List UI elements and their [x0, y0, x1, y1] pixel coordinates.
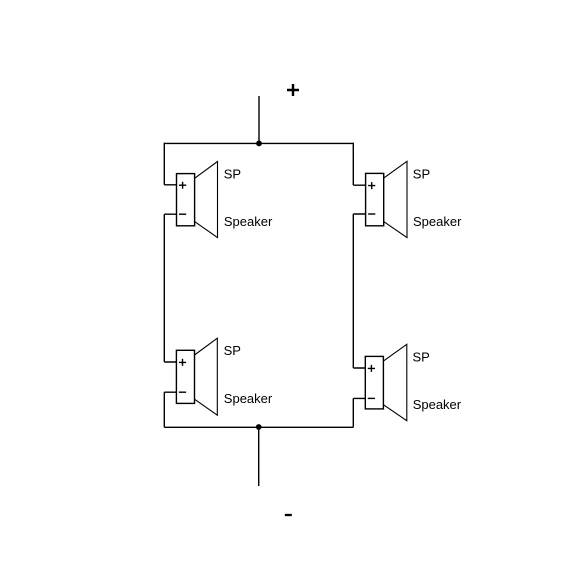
svg-text:Speaker: Speaker [413, 397, 462, 412]
svg-text:Speaker: Speaker [224, 214, 273, 229]
svg-text:SP: SP [224, 167, 241, 182]
svg-text:SP: SP [413, 166, 430, 181]
svg-text:Speaker: Speaker [413, 214, 462, 229]
svg-text:SP: SP [413, 349, 430, 364]
svg-text:SP: SP [224, 343, 241, 358]
svg-text:Speaker: Speaker [224, 391, 273, 406]
